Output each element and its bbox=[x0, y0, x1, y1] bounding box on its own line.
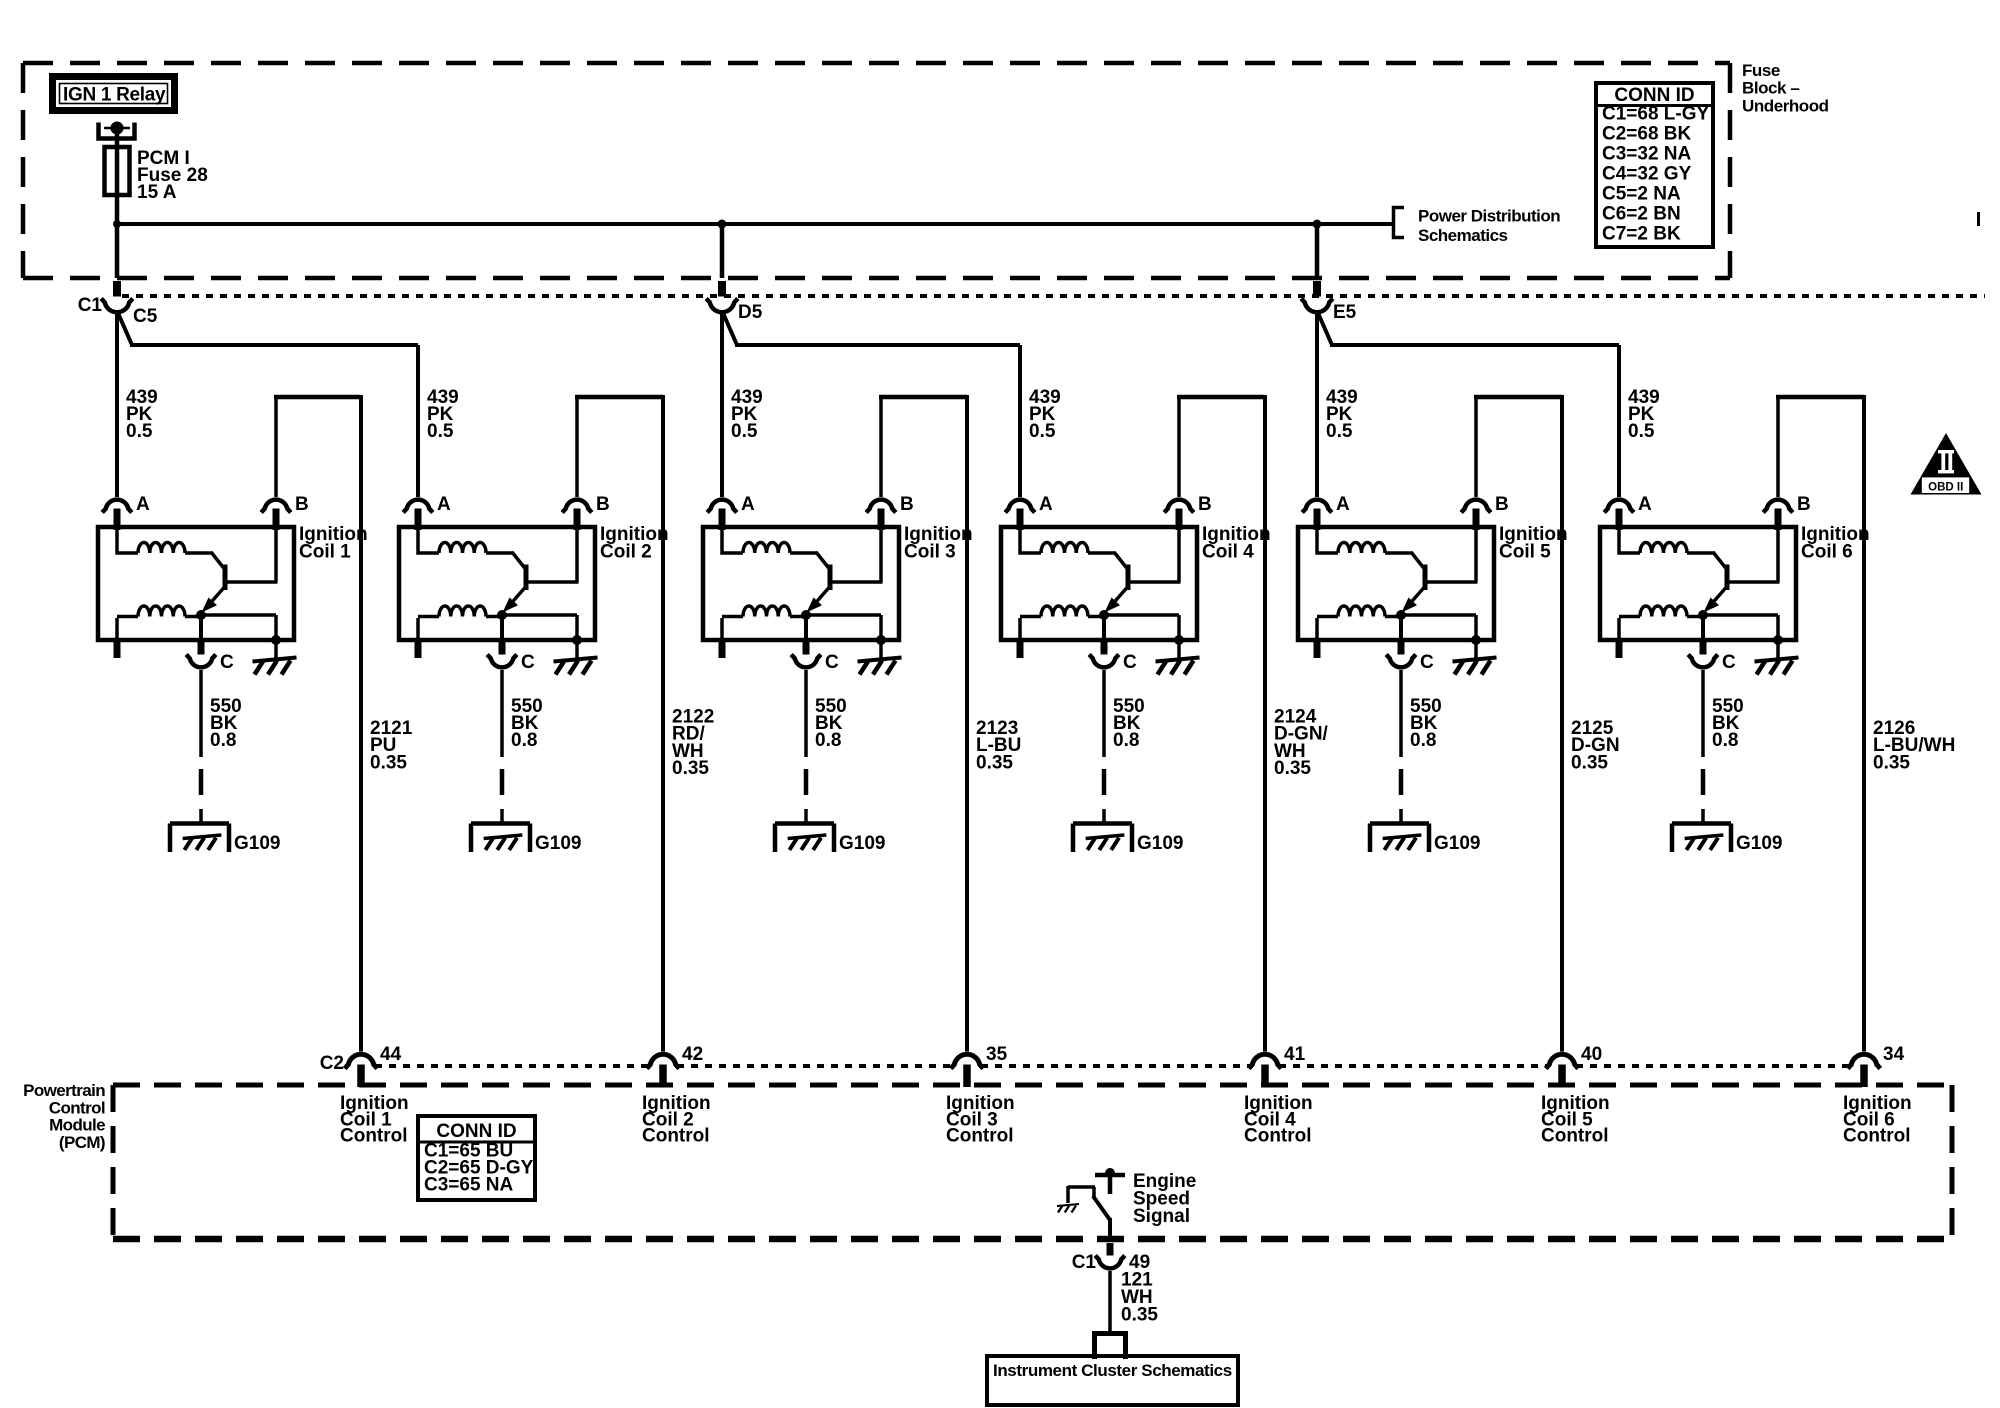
PCM CONN ID table bbox=[418, 1116, 535, 1200]
wire label 550 BK 0.8 bbox=[1410, 696, 1442, 751]
label Ignition Coil 4 Control bbox=[1244, 1093, 1313, 1147]
label A bbox=[741, 494, 755, 515]
PCM pin 42 stub bbox=[659, 1065, 667, 1088]
label pin 41 bbox=[1284, 1044, 1306, 1065]
label E5 bbox=[1333, 302, 1357, 323]
coil 6 pin A bbox=[1616, 509, 1623, 531]
power bus wire bbox=[117, 222, 1393, 226]
wire label 550 BK 0.8 bbox=[511, 696, 543, 751]
wire label 2123 bbox=[976, 718, 1021, 773]
coil 1 internal ground run bbox=[201, 615, 276, 640]
svg-text:0.35: 0.35 bbox=[1121, 1305, 1158, 1326]
PCM dashed boundary box bbox=[113, 1085, 1952, 1239]
PCM pin 44 connector bbox=[345, 1054, 378, 1068]
label pin 34 bbox=[1883, 1044, 1905, 1065]
svg-text:(PCM): (PCM) bbox=[59, 1133, 105, 1152]
wire ignition coil 2 control hook bbox=[575, 395, 663, 1052]
label Ignition Coil 5 Control bbox=[1541, 1093, 1610, 1147]
svg-text:IGN 1 Relay: IGN 1 Relay bbox=[63, 85, 166, 106]
coil 4 pin B bbox=[1176, 509, 1183, 531]
ignition coil 6 box bbox=[1600, 527, 1796, 640]
svg-text:42: 42 bbox=[682, 1044, 703, 1065]
svg-text:C2: C2 bbox=[320, 1053, 344, 1074]
coil 3 primary winding L1 bbox=[721, 529, 818, 555]
transistor Q1 base lead from pin B bbox=[227, 529, 278, 582]
PCM pin 34 stub bbox=[1860, 1065, 1868, 1088]
svg-text:0.35: 0.35 bbox=[672, 758, 709, 779]
bracket to power distribution schematics bbox=[1394, 208, 1405, 238]
label C bbox=[220, 652, 234, 673]
transistor Q6 base lead from pin B bbox=[1729, 529, 1780, 582]
svg-text:Underhood: Underhood bbox=[1742, 96, 1829, 115]
ignition coil 1 box bbox=[98, 527, 294, 640]
label G109 bbox=[1736, 833, 1782, 854]
coil 4 primary winding L1 bbox=[1019, 529, 1116, 555]
svg-text:Power Distribution: Power Distribution bbox=[1418, 207, 1560, 226]
transistor Q2 emitter with arrow bbox=[503, 587, 526, 613]
coil 6 secondary HV lead bbox=[1616, 618, 1623, 658]
coil 1 secondary HV lead bbox=[114, 618, 121, 658]
label C bbox=[521, 652, 535, 673]
coil 3 secondary winding L2 bbox=[722, 606, 806, 617]
transistor Q6 emitter with arrow bbox=[1704, 587, 1727, 613]
transistor Q3 emitter with arrow bbox=[807, 587, 830, 613]
label Powertrain Control Module (PCM) bbox=[23, 1081, 105, 1152]
svg-text:B: B bbox=[1797, 494, 1811, 515]
coil 3 emitter junction dot bbox=[801, 610, 811, 620]
wire label 550 BK 0.8 bbox=[1113, 696, 1145, 751]
coil 2 secondary winding L2 bbox=[418, 606, 502, 617]
svg-text:0.35: 0.35 bbox=[1571, 752, 1608, 773]
svg-text:G109: G109 bbox=[535, 833, 581, 854]
wire ignition coil 4 control hook bbox=[1177, 395, 1265, 1052]
ignition coil 2 box bbox=[399, 527, 595, 640]
svg-text:G109: G109 bbox=[839, 833, 885, 854]
svg-text:C: C bbox=[220, 652, 234, 673]
wire C5 jog to coil2 pin A (439 PK) bbox=[118, 313, 418, 497]
fuse F: PCM I Fuse 28 15 A bbox=[105, 147, 130, 195]
svg-text:Block –: Block – bbox=[1742, 79, 1799, 98]
connector C5 cup bbox=[101, 299, 133, 313]
wire 550 BK from coil 6 pin C bbox=[1701, 670, 1706, 824]
coil 2 ground lead bbox=[575, 640, 579, 658]
svg-text:Control: Control bbox=[1541, 1126, 1609, 1147]
label D5 bbox=[738, 302, 763, 323]
coil 6 internal ground run bbox=[1703, 615, 1778, 640]
transistor Q6 base bar bbox=[1725, 565, 1730, 591]
coil 3 internal ground run bbox=[806, 615, 881, 640]
svg-text:C5=2 NA: C5=2 NA bbox=[1602, 184, 1681, 205]
transistor Q3 base lead from pin B bbox=[832, 529, 883, 582]
svg-text:B: B bbox=[1198, 494, 1212, 515]
svg-text:C4=32 GY: C4=32 GY bbox=[1602, 164, 1692, 185]
PCM pin 49 connector C1 bbox=[1095, 1243, 1125, 1268]
svg-text:Coil 1: Coil 1 bbox=[299, 542, 351, 563]
svg-text:Control: Control bbox=[49, 1098, 105, 1117]
coil 1 pin B connector bbox=[261, 500, 291, 513]
wire C5 to coil1 pin A (439 PK) bbox=[115, 314, 119, 497]
coil 1 pin A bbox=[114, 509, 121, 531]
label G109 bbox=[234, 833, 280, 854]
wire relay to fuse bbox=[115, 128, 120, 147]
svg-text:C: C bbox=[1722, 652, 1736, 673]
label Ignition Coil 6 Control bbox=[1843, 1093, 1912, 1147]
svg-text:Powertrain: Powertrain bbox=[23, 1081, 105, 1100]
off-page connector to instrument cluster bbox=[1092, 1334, 1128, 1360]
svg-text:Control: Control bbox=[642, 1126, 710, 1147]
dotted inline-connector line (fuse block connectors) bbox=[122, 294, 1985, 298]
label fuse block - underhood bbox=[1742, 61, 1829, 115]
PCM pin 40 stub bbox=[1558, 1065, 1566, 1088]
transistor Q2 base lead from pin B bbox=[528, 529, 579, 582]
svg-text:0.5: 0.5 bbox=[731, 421, 758, 442]
coil 3 ground junction dot bbox=[876, 635, 886, 645]
transistor Q4 collector lead bbox=[1114, 552, 1128, 569]
label B bbox=[596, 494, 610, 515]
ignition coil 4 box bbox=[1001, 527, 1197, 640]
edge artifact mark bbox=[1977, 212, 1980, 226]
svg-text:C6=2 BN: C6=2 BN bbox=[1602, 204, 1681, 225]
coil 6 pin C bbox=[1700, 615, 1707, 657]
wire D5 to coil3 pin A (439 PK) bbox=[720, 314, 724, 497]
transistor Q1 base bar bbox=[223, 565, 228, 591]
ground G109 under coil 5 bbox=[1370, 824, 1429, 853]
transistor Q5 collector lead bbox=[1411, 552, 1425, 569]
svg-text:Control: Control bbox=[946, 1126, 1014, 1147]
coil 1 ground junction dot bbox=[271, 635, 281, 645]
svg-text:C1: C1 bbox=[1072, 1252, 1097, 1273]
coil 1 emitter junction dot bbox=[196, 610, 206, 620]
coil 4 ground junction dot bbox=[1174, 635, 1184, 645]
svg-text:OBD II: OBD II bbox=[1928, 481, 1963, 493]
label pin 42 bbox=[682, 1044, 703, 1065]
coil 4 secondary winding L2 bbox=[1020, 606, 1104, 617]
PCM pin 41 connector bbox=[1249, 1054, 1282, 1068]
wire 550 BK from coil 5 pin C bbox=[1399, 670, 1404, 824]
wire label 121 WH 0.35 bbox=[1121, 1270, 1158, 1326]
svg-text:G109: G109 bbox=[1137, 833, 1183, 854]
wire ignition coil 6 control hook bbox=[1776, 395, 1864, 1052]
ground (chassis) at coil 1 bbox=[253, 658, 297, 675]
svg-text:44: 44 bbox=[380, 1044, 402, 1065]
label Ignition Coil 1 Control bbox=[340, 1093, 409, 1147]
svg-text:A: A bbox=[437, 494, 451, 515]
svg-text:C1=68 L-GY: C1=68 L-GY bbox=[1602, 104, 1710, 125]
svg-text:Coil 5: Coil 5 bbox=[1499, 542, 1551, 563]
label G109 bbox=[839, 833, 885, 854]
wire E5 jog to coil6 pin A (439 PK) bbox=[1318, 313, 1619, 497]
svg-text:D5: D5 bbox=[738, 302, 763, 323]
PCM pin 44 stub bbox=[357, 1065, 365, 1088]
label 49 bbox=[1129, 1252, 1150, 1273]
svg-text:Coil 3: Coil 3 bbox=[904, 542, 956, 563]
coil 5 primary winding L1 bbox=[1316, 529, 1413, 555]
label Ignition Coil 6 bbox=[1801, 524, 1870, 563]
svg-text:Instrument Cluster Schematics: Instrument Cluster Schematics bbox=[993, 1361, 1232, 1380]
wire label 439 PK 0.5 bbox=[1029, 387, 1061, 442]
wire ignition coil 1 control hook bbox=[274, 395, 361, 1052]
wire 121 WH to instrument cluster bbox=[1108, 1271, 1112, 1333]
coil 4 pin C connector cup bbox=[1089, 655, 1119, 668]
wire D5 jog to coil4 pin A (439 PK) bbox=[723, 313, 1020, 497]
ground G109 under coil 4 bbox=[1073, 824, 1132, 853]
PCM pin 40 connector bbox=[1546, 1054, 1579, 1068]
coil 4 emitter junction dot bbox=[1099, 610, 1109, 620]
label B bbox=[900, 494, 914, 515]
coil 6 pin C connector cup bbox=[1688, 655, 1718, 668]
label A bbox=[1336, 494, 1350, 515]
coil 5 pin C connector cup bbox=[1386, 655, 1416, 668]
PCM pin 41 stub bbox=[1261, 1065, 1269, 1088]
coil 2 pin A connector bbox=[403, 500, 433, 513]
engine speed switch blade bbox=[1093, 1187, 1110, 1237]
coil 2 secondary HV lead bbox=[415, 618, 422, 658]
svg-text:C5: C5 bbox=[133, 306, 158, 327]
transistor Q2 collector lead bbox=[512, 552, 526, 569]
coil 5 internal ground run bbox=[1401, 615, 1476, 640]
ground (chassis) at coil 4 bbox=[1156, 658, 1200, 675]
coil 6 primary winding L1 bbox=[1618, 529, 1715, 555]
wire bus down to E5 bbox=[1315, 224, 1320, 278]
coil 4 pin A connector bbox=[1005, 500, 1035, 513]
coil 3 pin A connector bbox=[707, 500, 737, 513]
coil 2 pin B bbox=[574, 509, 581, 531]
coil 1 pin C connector cup bbox=[186, 655, 216, 668]
ground G109 under coil 6 bbox=[1672, 824, 1731, 853]
transistor Q3 collector lead bbox=[816, 552, 830, 569]
coil 3 pin C bbox=[803, 615, 810, 657]
svg-text:Coil 2: Coil 2 bbox=[600, 542, 652, 563]
label C2 (PCM connector) bbox=[320, 1053, 344, 1074]
coil 5 secondary winding L2 bbox=[1317, 606, 1401, 617]
label Ignition Coil 3 Control bbox=[946, 1093, 1015, 1147]
connector D5 pin stub bbox=[718, 281, 726, 297]
coil 4 pin A bbox=[1017, 509, 1024, 531]
label C bbox=[1722, 652, 1736, 673]
wire 550 BK from coil 4 pin C bbox=[1102, 670, 1107, 824]
ground G109 under coil 3 bbox=[775, 824, 834, 853]
coil 5 pin A bbox=[1314, 509, 1321, 531]
svg-text:0.35: 0.35 bbox=[1873, 752, 1910, 773]
svg-text:A: A bbox=[1638, 494, 1652, 515]
coil 5 secondary HV lead bbox=[1314, 618, 1321, 658]
engine speed signal source symbol bbox=[1095, 1168, 1125, 1194]
svg-text:A: A bbox=[1039, 494, 1053, 515]
svg-text:0.5: 0.5 bbox=[1628, 421, 1655, 442]
svg-text:0.8: 0.8 bbox=[1410, 730, 1436, 751]
svg-text:C: C bbox=[1123, 652, 1137, 673]
wire label 439 PK 0.5 bbox=[126, 387, 158, 442]
svg-text:34: 34 bbox=[1883, 1044, 1905, 1065]
coil 1 pin A connector bbox=[102, 500, 132, 513]
svg-text:Control: Control bbox=[340, 1126, 408, 1147]
coil 2 pin B connector bbox=[562, 500, 592, 513]
label A bbox=[437, 494, 451, 515]
wire label 2125 bbox=[1571, 718, 1620, 773]
svg-text:0.8: 0.8 bbox=[1712, 730, 1738, 751]
svg-text:B: B bbox=[1495, 494, 1509, 515]
svg-text:A: A bbox=[1336, 494, 1350, 515]
label C1 bbox=[1072, 1252, 1097, 1273]
svg-text:C7=2 BK: C7=2 BK bbox=[1602, 224, 1681, 245]
coil 6 pin B connector bbox=[1763, 500, 1793, 513]
svg-text:C2=68 BK: C2=68 BK bbox=[1602, 124, 1692, 145]
coil 5 pin A connector bbox=[1302, 500, 1332, 513]
coil 3 pin C connector cup bbox=[791, 655, 821, 668]
coil 2 ground junction dot bbox=[572, 635, 582, 645]
svg-text:B: B bbox=[596, 494, 610, 515]
label G109 bbox=[1434, 833, 1480, 854]
svg-text:0.5: 0.5 bbox=[126, 421, 153, 442]
svg-text:0.35: 0.35 bbox=[1274, 758, 1311, 779]
connector D5 cup bbox=[706, 299, 738, 313]
wire label 2121 bbox=[370, 718, 413, 773]
svg-text:C3=65 NA: C3=65 NA bbox=[424, 1175, 514, 1196]
label Ignition Coil 5 bbox=[1499, 524, 1568, 563]
label A bbox=[136, 494, 150, 515]
wire label 550 BK 0.8 bbox=[815, 696, 847, 751]
label A bbox=[1638, 494, 1652, 515]
coil 2 primary winding L1 bbox=[417, 529, 514, 555]
wire 550 BK from coil 2 pin C bbox=[500, 670, 505, 824]
label C bbox=[1420, 652, 1434, 673]
transistor Q3 base bar bbox=[828, 565, 833, 591]
svg-text:G109: G109 bbox=[1736, 833, 1782, 854]
transistor Q1 emitter with arrow bbox=[202, 587, 225, 613]
svg-text:CONN ID: CONN ID bbox=[436, 1121, 516, 1142]
label Engine Speed Signal bbox=[1133, 1171, 1196, 1227]
coil 4 secondary HV lead bbox=[1017, 618, 1024, 658]
junction dot E branch bbox=[1313, 220, 1322, 229]
svg-text:C3=32 NA: C3=32 NA bbox=[1602, 144, 1692, 165]
svg-text:15 A: 15 A bbox=[137, 182, 177, 203]
coil 6 pin B bbox=[1775, 509, 1782, 531]
junction dot at fuse/bus bbox=[113, 220, 121, 228]
label pin 35 bbox=[986, 1044, 1008, 1065]
fuse block CONN ID table bbox=[1596, 83, 1713, 247]
coil 4 ground lead bbox=[1177, 640, 1181, 658]
coil 4 pin B connector bbox=[1164, 500, 1194, 513]
svg-text:C: C bbox=[521, 652, 535, 673]
coil 1 pin B bbox=[273, 509, 280, 531]
coil 2 pin A bbox=[415, 509, 422, 531]
label G109 bbox=[1137, 833, 1183, 854]
svg-text:G109: G109 bbox=[234, 833, 280, 854]
dotted inline-connector line (PCM C2 connector) bbox=[375, 1064, 1848, 1068]
ground (chassis) at coil 2 bbox=[554, 658, 598, 675]
PCM pin 42 connector bbox=[647, 1054, 680, 1068]
svg-text:Fuse: Fuse bbox=[1742, 61, 1780, 80]
svg-text:35: 35 bbox=[986, 1044, 1008, 1065]
label C5 bbox=[133, 306, 158, 327]
wire label 439 PK 0.5 bbox=[731, 387, 763, 442]
label Ignition Coil 2 bbox=[600, 524, 669, 563]
transistor Q4 base lead from pin B bbox=[1130, 529, 1181, 582]
svg-text:C: C bbox=[1420, 652, 1434, 673]
junction dot D branch bbox=[718, 220, 727, 229]
coil 4 internal ground run bbox=[1104, 615, 1179, 640]
connector C5 pin stub bbox=[113, 281, 121, 297]
transistor Q5 base lead from pin B bbox=[1427, 529, 1478, 582]
ignition coil 3 box bbox=[703, 527, 899, 640]
coil 1 ground lead bbox=[274, 640, 278, 658]
coil 3 ground lead bbox=[879, 640, 883, 658]
svg-text:0.35: 0.35 bbox=[976, 752, 1013, 773]
transistor Q4 base bar bbox=[1126, 565, 1131, 591]
coil 1 pin C bbox=[198, 615, 205, 657]
svg-text:41: 41 bbox=[1284, 1044, 1306, 1065]
coil 5 ground junction dot bbox=[1471, 635, 1481, 645]
transistor Q2 base bar bbox=[524, 565, 529, 591]
svg-text:0.5: 0.5 bbox=[1029, 421, 1056, 442]
label B bbox=[1198, 494, 1212, 515]
label A bbox=[1039, 494, 1053, 515]
wire fuse down to bus bbox=[115, 195, 120, 278]
svg-text:0.5: 0.5 bbox=[427, 421, 454, 442]
coil 4 pin C bbox=[1101, 615, 1108, 657]
label Ignition Coil 2 Control bbox=[642, 1093, 711, 1147]
coil 6 ground junction dot bbox=[1773, 635, 1783, 645]
coil 3 pin B bbox=[878, 509, 885, 531]
svg-text:Control: Control bbox=[1843, 1126, 1911, 1147]
transistor Q6 collector lead bbox=[1713, 552, 1727, 569]
fuse block - underhood dashed boundary box bbox=[23, 63, 1730, 278]
wire ignition coil 5 control hook bbox=[1474, 395, 1562, 1052]
coil 2 internal ground run bbox=[502, 615, 577, 640]
label pin 40 bbox=[1581, 1044, 1602, 1065]
svg-text:Coil 6: Coil 6 bbox=[1801, 542, 1853, 563]
transistor Q5 base bar bbox=[1423, 565, 1428, 591]
transistor Q1 collector lead bbox=[211, 552, 225, 569]
svg-text:0.8: 0.8 bbox=[511, 730, 537, 751]
svg-text:B: B bbox=[900, 494, 914, 515]
wire label 550 BK 0.8 bbox=[1712, 696, 1744, 751]
coil 2 emitter junction dot bbox=[497, 610, 507, 620]
svg-text:0.8: 0.8 bbox=[1113, 730, 1139, 751]
label Ignition Coil 3 bbox=[904, 524, 973, 563]
svg-text:Module: Module bbox=[49, 1116, 105, 1135]
label Ignition Coil 4 bbox=[1202, 524, 1271, 563]
svg-text:0.35: 0.35 bbox=[370, 752, 407, 773]
ground (chassis) at coil 3 bbox=[858, 658, 902, 675]
coil 5 pin B connector bbox=[1461, 500, 1491, 513]
label B bbox=[295, 494, 309, 515]
PCM pin 35 connector bbox=[951, 1054, 984, 1068]
label Ignition Coil 1 bbox=[299, 524, 368, 563]
coil 1 primary winding L1 bbox=[116, 529, 213, 555]
ignition coil 5 box bbox=[1298, 527, 1494, 640]
wire 550 BK from coil 3 pin C bbox=[804, 670, 809, 824]
svg-text:G109: G109 bbox=[1434, 833, 1480, 854]
wire label 439 PK 0.5 bbox=[1628, 387, 1660, 442]
ground G109 under coil 1 bbox=[170, 824, 229, 853]
instrument cluster schematics box bbox=[987, 1356, 1238, 1405]
connector E5 pin stub bbox=[1313, 281, 1321, 297]
coil 3 pin B connector bbox=[866, 500, 896, 513]
svg-text:C1: C1 bbox=[78, 295, 103, 316]
label power distribution schematics bbox=[1418, 207, 1560, 246]
ground G109 under coil 2 bbox=[471, 824, 530, 853]
coil 5 emitter junction dot bbox=[1396, 610, 1406, 620]
coil 5 pin C bbox=[1398, 615, 1405, 657]
transistor Q4 emitter with arrow bbox=[1105, 587, 1128, 613]
relay K: IGN 1 Relay box bbox=[53, 77, 175, 111]
coil 2 pin C bbox=[499, 615, 506, 657]
fuse label bbox=[137, 148, 208, 203]
OBD II marker bbox=[1911, 433, 1982, 495]
svg-text:Schematics: Schematics bbox=[1418, 226, 1508, 245]
wire 550 BK from coil 1 pin C bbox=[199, 670, 204, 824]
